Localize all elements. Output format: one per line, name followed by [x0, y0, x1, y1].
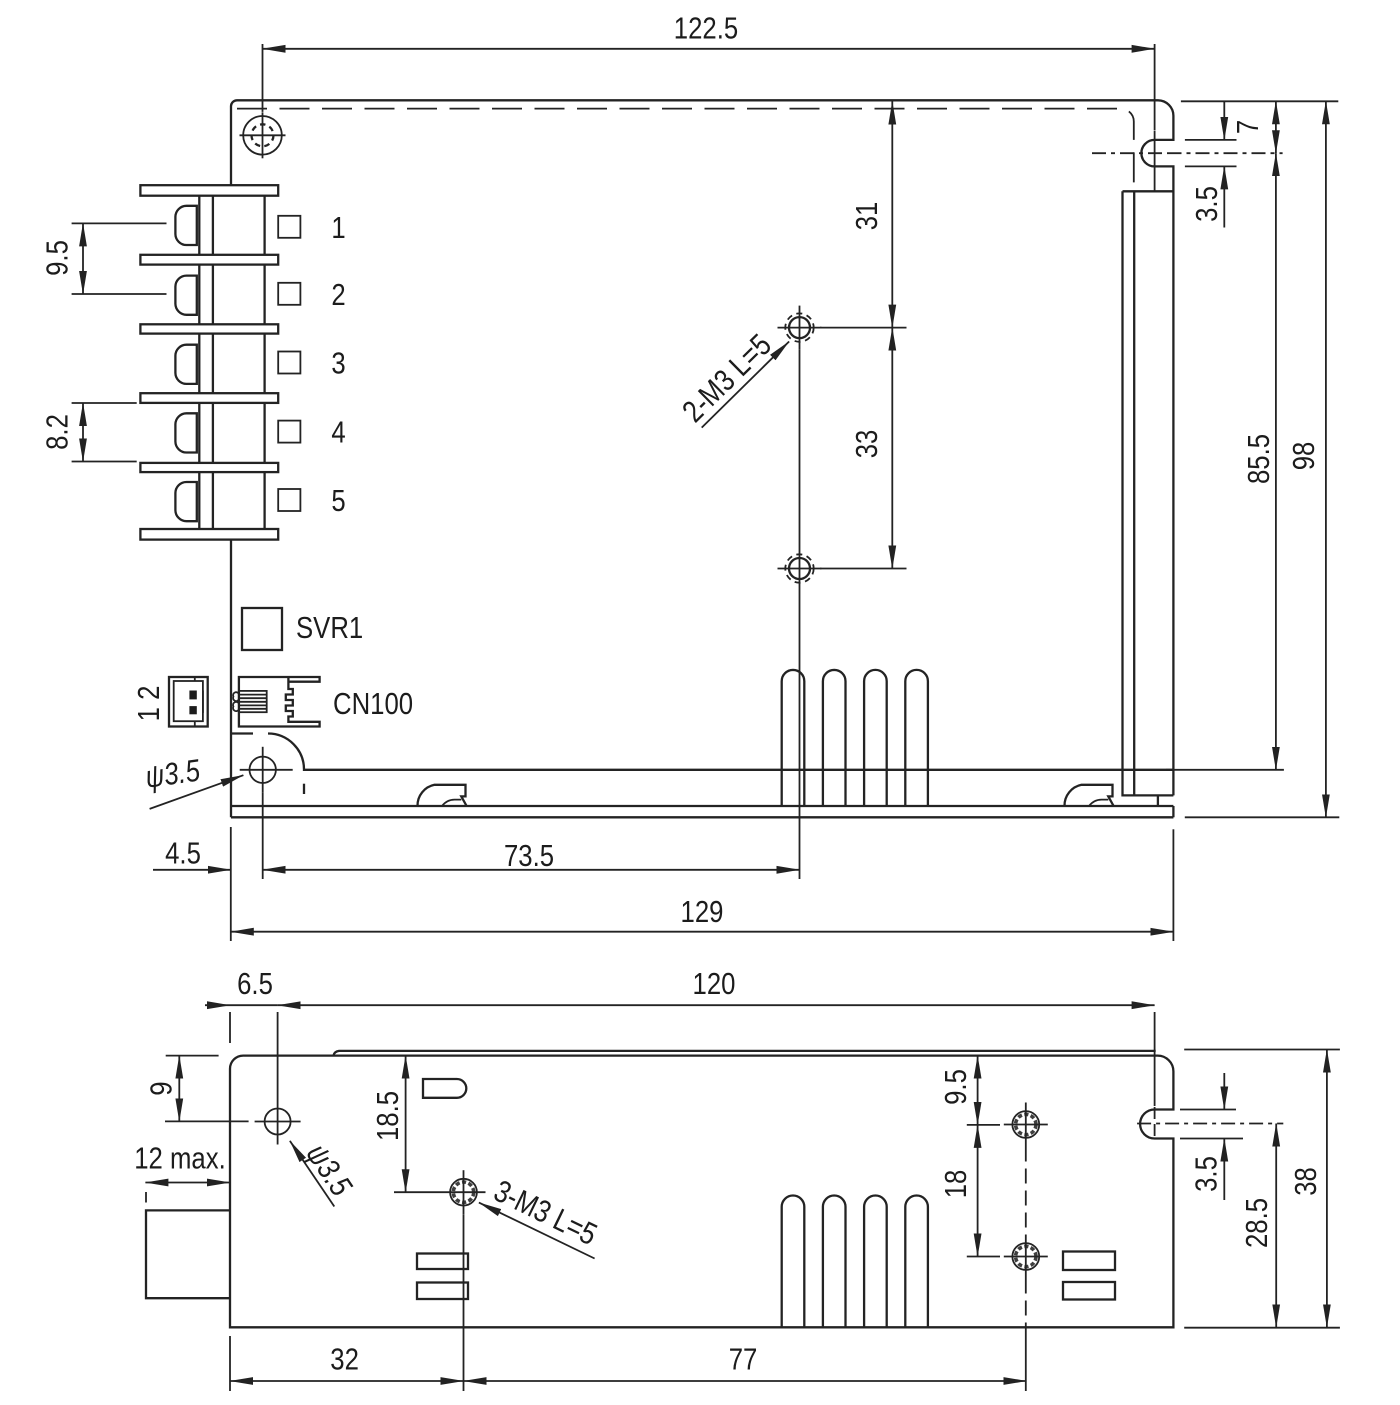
M3 hole upper (2-M3): [789, 317, 810, 338]
dim 122.5 top: [262, 44, 264, 112]
terminal block separator bars: [140, 185, 278, 196]
slot cutout near top: [423, 1079, 466, 1098]
dim 31 / 33: [820, 327, 907, 329]
ext up to 6.5/120 dims: [277, 1012, 279, 1099]
two rect cutouts center: [417, 1254, 468, 1270]
2-pin connector outside left edge: [169, 677, 208, 727]
terminal screws (side view D-shapes): [175, 206, 196, 245]
svg-text:4.5: 4.5: [165, 836, 201, 871]
svg-text:2: 2: [331, 277, 345, 312]
ext down to 32/77 dim: [463, 1214, 465, 1391]
svg-text:31: 31: [849, 202, 884, 231]
svg-text:4: 4: [331, 415, 345, 450]
mounting hole top-left (3.5 dia): [243, 116, 282, 155]
label psi 3.5 top view: [150, 775, 244, 809]
svg-text:32: 32: [330, 1342, 359, 1377]
dim 9 left: [166, 1055, 219, 1057]
CN100 connector body: [239, 677, 320, 727]
heatsink fin slots (top view): [782, 670, 805, 806]
dim 6.5 / 120: [229, 1012, 231, 1043]
svg-text:3.5: 3.5: [1189, 186, 1224, 222]
chassis bend/step line bottom: [231, 734, 1173, 770]
SVR1 potentiometer square: [242, 608, 282, 650]
svg-text:122.5: 122.5: [674, 11, 738, 46]
svg-text:1 2: 1 2: [131, 686, 166, 722]
svg-text:73.5: 73.5: [504, 838, 554, 873]
two rect cutouts right: [1063, 1252, 1115, 1271]
ext down to 4.5/73.5 dim: [262, 793, 264, 879]
dim 9.5 terminals: [72, 222, 167, 224]
svg-text:77: 77: [729, 1342, 758, 1377]
ext down to 77 dim: [1025, 1327, 1027, 1391]
svg-text:98: 98: [1286, 442, 1321, 471]
mounting notch hole top-right crosshair: [1092, 152, 1168, 154]
AC inlet block: [146, 1210, 230, 1298]
svg-text:38: 38: [1288, 1167, 1323, 1196]
CN100 pin block hatched: [239, 691, 267, 712]
svg-text:7: 7: [1230, 120, 1265, 134]
M3 hole bottom view center (3-M3): [450, 1179, 477, 1206]
svg-text:12 max.: 12 max.: [134, 1141, 226, 1176]
dim 9.5 / 18 bottom view: [967, 1124, 1000, 1126]
svg-text:9.5: 9.5: [40, 240, 75, 276]
svg-text:5: 5: [331, 483, 345, 518]
case outline bottom view: [230, 1056, 1173, 1328]
svg-text:129: 129: [681, 894, 724, 929]
case top edge with corners: [231, 100, 1173, 817]
svg-text:1: 1: [331, 210, 345, 245]
svg-text:SVR1: SVR1: [296, 610, 363, 645]
dim 85.5 / 98 right: [1166, 769, 1284, 771]
svg-text:9: 9: [144, 1081, 179, 1095]
svg-text:85.5: 85.5: [1241, 434, 1276, 484]
CN100 pin bumps: [233, 692, 239, 711]
dashed cover edge: [237, 109, 1134, 192]
label 3-M3 L=5: [479, 1203, 595, 1259]
dim 8.2 terminals: [72, 402, 137, 404]
centerline between M3 holes: [799, 350, 801, 547]
M3 hole bottom view right upper (3-M3): [1012, 1111, 1039, 1138]
svg-text:CN100: CN100: [333, 686, 413, 721]
dashed centerline through right M3 holes: [1025, 1147, 1027, 1235]
dim 4.5 / 73.5 / 129 bottom: [230, 827, 232, 941]
dim 3.5 bottom right: [1180, 1109, 1236, 1111]
short seam below arc: [303, 784, 305, 794]
mounting hole bottom view left 3.5 dia: [265, 1109, 291, 1135]
terminal block body columns: [198, 196, 200, 255]
dim 18.5: [394, 1191, 442, 1193]
bottom flange lines: [231, 805, 1173, 807]
svg-text:3: 3: [331, 346, 345, 381]
right side wall (top view): [1123, 191, 1174, 795]
pin squares on pcb: [278, 216, 300, 238]
cover top line: [334, 1051, 1156, 1056]
notch hole bottom view crosshair: [1137, 1123, 1283, 1125]
svg-text:120: 120: [693, 966, 736, 1001]
M3 hole bottom view right lower (3-M3): [1012, 1243, 1039, 1270]
ext line from lower M3 hole down to 73.5 dim: [799, 591, 801, 880]
dim 12 max: [145, 1182, 230, 1184]
dim 32 / 77: [229, 1336, 231, 1391]
svg-text:33: 33: [849, 430, 884, 459]
M3 hole lower (2-M3): [789, 558, 810, 579]
svg-text:8.2: 8.2: [40, 414, 75, 450]
svg-text:28.5: 28.5: [1239, 1198, 1274, 1248]
dim 7 / 3.5 top right: [1181, 100, 1338, 102]
svg-text:9.5: 9.5: [938, 1069, 973, 1105]
mounting hole bottom-left 3.5 dia: [250, 757, 276, 783]
svg-text:6.5: 6.5: [237, 966, 273, 1001]
dim 28.5 / 38 right: [1184, 1049, 1340, 1051]
label psi 3.5 bottom view: [290, 1141, 334, 1207]
label 2-M3 L=5: [702, 342, 789, 428]
heatsink fin slots (bottom view): [782, 1196, 805, 1328]
svg-text:18: 18: [938, 1170, 973, 1199]
svg-text:18.5: 18.5: [370, 1091, 405, 1141]
latch clip left: [417, 785, 466, 806]
svg-text:3.5: 3.5: [1189, 1156, 1224, 1192]
